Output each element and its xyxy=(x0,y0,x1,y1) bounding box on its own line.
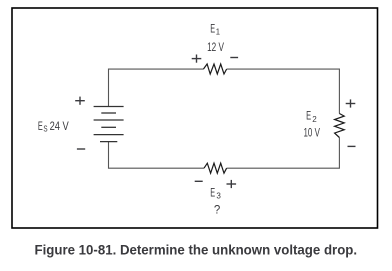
svg-text:10 V: 10 V xyxy=(304,128,321,140)
svg-text:E: E xyxy=(210,24,215,36)
svg-text:?: ? xyxy=(214,204,220,216)
wire E2 to E3 xyxy=(227,138,340,169)
E3 - polarity xyxy=(195,180,203,182)
E3 + polarity xyxy=(227,180,237,188)
svg-text:E: E xyxy=(306,111,311,123)
E2 - polarity xyxy=(348,145,356,147)
E1 + polarity xyxy=(192,55,202,63)
wire E1 to E2 xyxy=(227,69,340,113)
label ES 24 V xyxy=(38,121,69,134)
svg-text:1: 1 xyxy=(216,26,221,36)
label E2 xyxy=(306,111,317,124)
resistor E1 xyxy=(203,64,226,74)
label E3 xyxy=(210,187,221,200)
svg-text:E: E xyxy=(38,121,43,133)
wire E3 to battery xyxy=(109,142,205,169)
label E1 xyxy=(210,24,220,37)
svg-text:12 V: 12 V xyxy=(207,42,224,54)
resistor E3 xyxy=(204,163,227,173)
svg-text:Figure 10-81. Determine the un: Figure 10-81. Determine the unknown volt… xyxy=(35,242,358,258)
E1 - polarity xyxy=(230,57,238,59)
E2 + polarity xyxy=(346,99,356,107)
wire battery to E1 xyxy=(109,69,204,106)
resistor E2 xyxy=(335,114,345,138)
battery - polarity xyxy=(77,148,85,150)
svg-text:24 V: 24 V xyxy=(50,121,69,133)
battery ES xyxy=(94,107,124,142)
battery + polarity xyxy=(75,97,85,105)
svg-text:S: S xyxy=(43,124,47,134)
svg-text:E: E xyxy=(210,187,215,199)
svg-text:3: 3 xyxy=(216,191,221,201)
svg-text:2: 2 xyxy=(312,114,317,124)
